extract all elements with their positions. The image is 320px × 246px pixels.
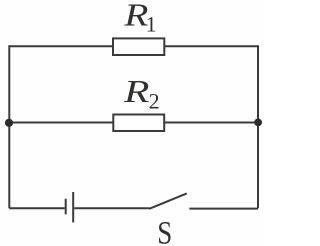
wire bottom rail right segment: [189, 208, 258, 210]
battery B1 negative plate: [65, 199, 67, 215]
label R2: [123, 73, 160, 114]
node left junction: [5, 119, 13, 127]
wire middle rail left segment: [9, 122, 113, 124]
switch S blade: [149, 193, 187, 208]
svg-text:S: S: [157, 215, 172, 246]
svg-text:R: R: [123, 73, 150, 109]
resistor R2: [113, 115, 164, 132]
node right junction: [254, 119, 262, 127]
wire middle rail right segment: [164, 122, 258, 124]
label R1: [123, 0, 156, 36]
battery B1 positive plate: [72, 192, 74, 223]
wire left vertical: [8, 45, 10, 208]
wire right vertical: [257, 45, 259, 208]
svg-text:1: 1: [146, 11, 157, 36]
resistor R1: [113, 38, 164, 55]
wire top rail right segment: [164, 45, 258, 47]
svg-text:2: 2: [149, 89, 160, 114]
wire bottom rail left segment: [9, 207, 64, 209]
wire battery to switch: [74, 207, 149, 209]
wire top rail left segment: [9, 45, 113, 47]
